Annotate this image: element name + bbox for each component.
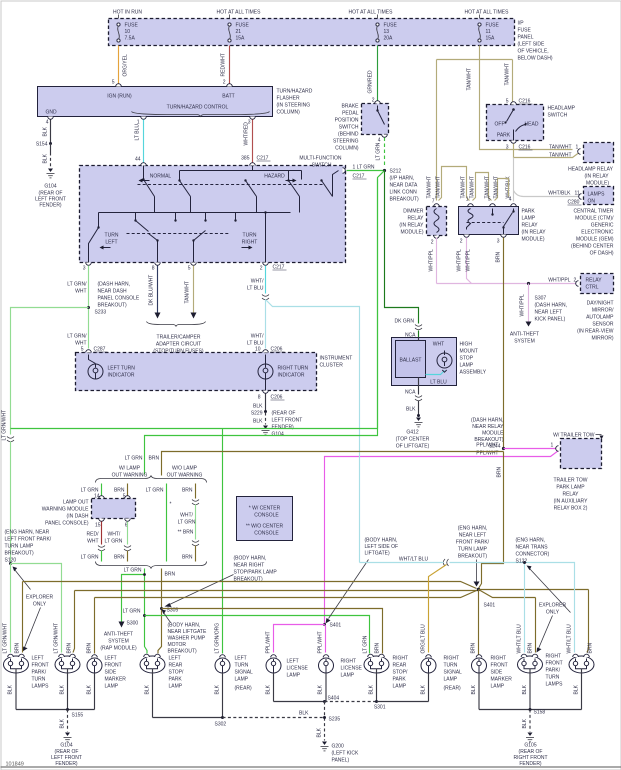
svg-text:(LEFT SIDE: (LEFT SIDE <box>518 42 546 48</box>
wire BRN park relay pin3 to S244 <box>496 238 504 478</box>
svg-text:S154: S154 <box>36 142 48 148</box>
ground G200 left kick panel <box>321 742 360 764</box>
svg-text:(REAR): (REAR) <box>235 686 253 692</box>
svg-text:WHT/PPL: WHT/PPL <box>466 249 472 271</box>
svg-text:RIGHT: RIGHT <box>491 656 507 662</box>
svg-text:(BODY HARN,: (BODY HARN, <box>234 556 267 562</box>
svg-text:(TOP CENTER: (TOP CENTER <box>396 437 430 443</box>
label W/ LAMP OUT WARNING <box>112 466 148 479</box>
svg-text:TAN/WHT: TAN/WHT <box>549 153 571 159</box>
svg-text:LT GRN: LT GRN <box>178 520 196 526</box>
svg-text:LAMP: LAMP <box>341 673 355 679</box>
svg-text:TAN/WHT: TAN/WHT <box>470 176 476 198</box>
wire LT GRN/WHT S233 branch to left side <box>2 308 89 441</box>
wire WHT/BLK branch to CTM lamps on <box>514 191 582 206</box>
svg-text:(BEHIND CENTER: (BEHIND CENTER <box>571 244 614 250</box>
svg-text:PANEL CONSOLE: PANEL CONSOLE <box>98 296 140 302</box>
svg-text:PANEL: PANEL <box>518 35 534 41</box>
svg-text:5: 5 <box>488 197 491 203</box>
svg-text:LT GRN: LT GRN <box>146 488 164 494</box>
wire WHT/LT BLU switch pin2 down <box>247 266 266 294</box>
svg-text:7: 7 <box>432 199 435 205</box>
svg-text:LEFT SIDE OF: LEFT SIDE OF <box>365 544 399 550</box>
wire BLK license ground bus <box>266 684 341 740</box>
svg-text:REAR: REAR <box>169 663 183 669</box>
svg-text:LEFT: LEFT <box>235 656 247 662</box>
svg-text:OF DASH): OF DASH) <box>590 251 614 257</box>
svg-text:HAZARD: HAZARD <box>264 174 285 180</box>
svg-text:2: 2 <box>372 98 375 104</box>
brace split lamp-out <box>96 476 207 483</box>
svg-text:LT GRN/WHT: LT GRN/WHT <box>3 623 9 654</box>
svg-text:TURN: TURN <box>105 233 119 239</box>
lamp LEFT REAR STOP/PARK (dual) <box>140 654 165 717</box>
svg-text:** BRN: ** BRN <box>178 530 194 536</box>
svg-text:BRN: BRN <box>496 252 502 263</box>
svg-text:(IN AUXILIARY: (IN AUXILIARY <box>554 499 588 505</box>
svg-text:LEFT: LEFT <box>105 656 117 662</box>
switch blade hazard <box>287 171 299 197</box>
dimmer relay (in relay module) <box>427 199 447 246</box>
svg-text:ANTI-THEFT: ANTI-THEFT <box>510 332 539 338</box>
label EXPLORER ONLY (right) <box>527 566 571 653</box>
svg-text:TAN/WHT: TAN/WHT <box>494 176 500 198</box>
svg-text:OF LIFTGATE): OF LIFTGATE) <box>396 444 430 450</box>
pin labels bottom of switch <box>83 265 287 272</box>
fuse 11 15A <box>478 23 500 43</box>
svg-text:RELAY: RELAY <box>522 223 539 229</box>
instrument cluster box <box>76 347 353 394</box>
svg-text:LAMP: LAMP <box>460 363 474 369</box>
svg-text:WASHER PUMP: WASHER PUMP <box>168 636 206 642</box>
wire BLK right ground bus <box>471 684 582 731</box>
svg-text:MOTOR: MOTOR <box>168 642 187 648</box>
svg-text:BRN: BRN <box>87 643 93 654</box>
switch internal dashed rail 1 <box>138 184 324 186</box>
wire BRN S244 down to S401 <box>479 452 504 589</box>
wire RED/WHT module pin15 <box>81 522 105 562</box>
label eng harn near left front park/turn lamp breakout (pointer) <box>456 526 490 587</box>
svg-text:BRN: BRN <box>375 643 381 654</box>
svg-text:RED/: RED/ <box>87 532 100 538</box>
svg-text:(ENG HARN,: (ENG HARN, <box>458 526 487 532</box>
svg-text:C206: C206 <box>271 347 283 353</box>
svg-text:STOP: STOP <box>460 356 474 362</box>
svg-text:KICK PANEL): KICK PANEL) <box>535 317 566 323</box>
svg-text:GENERIC: GENERIC <box>591 223 614 229</box>
wire BLK to G104 <box>43 144 51 168</box>
svg-text:FRONT: FRONT <box>491 663 508 669</box>
svg-text:PPL/WHT: PPL/WHT <box>266 631 272 653</box>
svg-text:BLK: BLK <box>253 419 263 425</box>
switch blade to pin 5 <box>192 231 205 263</box>
wire WHT/PPL S307 to anti-theft <box>510 284 539 345</box>
svg-text:BRN: BRN <box>182 488 193 494</box>
brake pedal position switch <box>362 101 389 144</box>
svg-text:ADAPTER CIRCUIT: ADAPTER CIRCUIT <box>156 342 201 348</box>
svg-text:LAMP OUT: LAMP OUT <box>63 500 88 506</box>
svg-text:G105: G105 <box>524 743 536 749</box>
connector break on left LT GRN/WHT <box>7 437 14 442</box>
svg-text:PARK/: PARK/ <box>32 670 47 676</box>
switch label HAZARD <box>264 174 296 183</box>
svg-text:44: 44 <box>135 157 141 163</box>
svg-text:(BEHIND: (BEHIND <box>338 132 359 138</box>
svg-text:BLK: BLK <box>406 407 416 413</box>
label right front park/turn lamps <box>546 654 564 688</box>
wire ORG/YEL fuse10 to flasher <box>112 46 129 86</box>
svg-text:TURN LAMP: TURN LAMP <box>458 547 488 553</box>
svg-text:3: 3 <box>83 266 86 272</box>
wire WHT/PPL to relay ctrl <box>437 278 577 284</box>
svg-text:LT GRN: LT GRN <box>105 539 123 545</box>
svg-text:RIGHT: RIGHT <box>546 654 562 660</box>
svg-text:RELAY: RELAY <box>562 492 579 498</box>
label headlamp switch <box>548 106 576 119</box>
svg-text:10: 10 <box>125 29 131 35</box>
lamp LEFT LICENSE <box>266 655 281 702</box>
svg-text:FRONT PARK/: FRONT PARK/ <box>456 540 490 546</box>
svg-text:WHT/BLK: WHT/BLK <box>548 191 571 197</box>
svg-text:CONSOLE: CONSOLE <box>254 513 279 519</box>
svg-text:SWITCH: SWITCH <box>339 125 359 131</box>
svg-text:W/O LAMP: W/O LAMP <box>172 466 198 472</box>
svg-text:DAY/NIGHT: DAY/NIGHT <box>587 301 614 307</box>
label park lamp relay <box>522 209 547 243</box>
svg-text:BELOW DASH): BELOW DASH) <box>518 56 553 62</box>
svg-text:DIMMER: DIMMER <box>403 209 424 215</box>
svg-text:385: 385 <box>241 156 250 162</box>
svg-text:S307: S307 <box>535 296 547 302</box>
label TURN RIGHT <box>242 233 258 250</box>
svg-text:BLK: BLK <box>266 684 272 694</box>
svg-text:HOT AT ALL TIMES: HOT AT ALL TIMES <box>349 10 394 16</box>
svg-text:STOP/: STOP/ <box>169 670 185 676</box>
svg-text:SIGNAL: SIGNAL <box>444 670 463 676</box>
wire WHT/PPL dimmer pin2 down <box>429 238 437 284</box>
svg-text:LEFT: LEFT <box>169 656 181 662</box>
svg-text:HEAD: HEAD <box>525 122 539 128</box>
svg-text:LEFT: LEFT <box>32 656 44 662</box>
connector break WHT/LT BLU <box>262 295 269 300</box>
label W/O LAMP OUT WARNING <box>167 466 203 479</box>
svg-text:C216: C216 <box>519 145 531 151</box>
wire LT GRN merged down <box>145 569 148 654</box>
svg-text:ONLY: ONLY <box>546 610 560 616</box>
svg-text:LAMP: LAMP <box>444 677 458 683</box>
svg-text:5: 5 <box>81 347 84 353</box>
switch internal rail top <box>180 166 302 171</box>
svg-text:REAR: REAR <box>393 663 407 669</box>
wire BLK flasher GND <box>43 120 51 144</box>
turn/hazard flasher box <box>38 84 273 120</box>
svg-text:LT GRN/WHT: LT GRN/WHT <box>2 410 8 441</box>
svg-text:NEAR TRANS: NEAR TRANS <box>516 545 549 551</box>
svg-text:LIFTGATE): LIFTGATE) <box>365 551 391 557</box>
label right license lamp <box>341 659 363 679</box>
wire LT GRN/WHT switch pin3 to cluster <box>67 266 88 349</box>
svg-text:BRAKE: BRAKE <box>342 104 360 110</box>
svg-text:(REAR OF: (REAR OF <box>272 411 296 417</box>
svg-text:W/ TRAILER TOW: W/ TRAILER TOW <box>553 433 595 439</box>
wire GRN/RED fuse13 to brake switch <box>368 46 378 104</box>
left turn indicator lamp <box>88 355 135 380</box>
svg-text:LT GRN: LT GRN <box>81 555 99 561</box>
svg-text:BRN: BRN <box>149 456 160 462</box>
node S307 <box>527 282 567 323</box>
svg-text:1: 1 <box>551 443 554 449</box>
svg-text:RIGHT TURN: RIGHT TURN <box>278 366 309 372</box>
wire WHT/LT BLU branch to right side <box>266 300 360 563</box>
svg-text:BRN: BRN <box>528 643 534 654</box>
svg-text:5: 5 <box>506 99 509 105</box>
svg-text:BLK: BLK <box>253 404 263 410</box>
svg-text:MIRROR/: MIRROR/ <box>592 308 614 314</box>
wire WHT/LT GRN module pin6 <box>105 522 132 562</box>
label right front side marker lamp <box>491 656 513 690</box>
lamp RIGHT FRONT PARK/TURN 2 (dual) <box>569 654 594 709</box>
wire TAN/WHT fuse11 branch <box>437 46 573 201</box>
svg-text:IGN (RUN): IGN (RUN) <box>107 94 132 100</box>
wire BLK right rear ground bus <box>325 684 429 710</box>
node S233 <box>87 282 140 316</box>
svg-text:HOT AT ALL TIMES: HOT AT ALL TIMES <box>217 10 262 16</box>
svg-text:5: 5 <box>112 80 115 86</box>
svg-text:BRN: BRN <box>67 643 73 654</box>
wire LT GRN/WHT break to S120 <box>10 442 12 564</box>
svg-text:LEFT TURN: LEFT TURN <box>108 366 136 372</box>
svg-text:NEAR DASH: NEAR DASH <box>98 289 128 295</box>
svg-text:FUSE: FUSE <box>125 23 139 29</box>
svg-text:S401: S401 <box>484 603 496 609</box>
svg-text:PEDAL: PEDAL <box>342 111 359 117</box>
svg-text:PARK LAMP: PARK LAMP <box>556 485 585 491</box>
wire PPL/WHT to left license lamp <box>266 625 325 654</box>
svg-text:BREAKOUT): BREAKOUT) <box>458 554 488 560</box>
svg-text:BLK: BLK <box>145 684 151 694</box>
switch blade right <box>302 171 339 197</box>
svg-text:S122: S122 <box>516 559 528 565</box>
svg-text:1 LT GRN: 1 LT GRN <box>353 165 375 171</box>
wire LT GRN col1 <box>81 484 102 500</box>
svg-text:EXPLORER: EXPLORER <box>539 603 567 609</box>
svg-text:BLK: BLK <box>317 727 323 737</box>
svg-text:15A: 15A <box>486 36 496 42</box>
label body harn left side of liftgate <box>326 538 399 624</box>
svg-text:BLK: BLK <box>215 684 221 694</box>
svg-text:S120: S120 <box>5 558 17 564</box>
svg-text:PANEL): PANEL) <box>332 758 350 764</box>
svg-text:BRN: BRN <box>588 643 594 654</box>
svg-text:WHT/: WHT/ <box>251 279 264 285</box>
svg-text:4: 4 <box>509 197 512 203</box>
svg-text:MODULE: MODULE <box>482 431 504 437</box>
label HOT IN RUN <box>113 10 142 19</box>
svg-text:DK GRN: DK GRN <box>395 319 415 325</box>
trailer tow park lamp relay <box>553 433 603 512</box>
label HOT AT ALL TIMES (fuse 11) <box>465 10 510 19</box>
label left rear stop/park lamp <box>169 656 185 690</box>
svg-text:CONSOLE: CONSOLE <box>254 531 279 537</box>
svg-text:101849: 101849 <box>6 762 24 768</box>
label right rear stop/park lamp <box>393 656 409 690</box>
svg-text:BLK: BLK <box>522 718 528 728</box>
svg-text:13: 13 <box>384 29 390 35</box>
wire BRN bus to left front park/turn lamp 1 <box>15 582 477 654</box>
svg-text:LAMP: LAMP <box>235 677 249 683</box>
svg-text:ELECTRONIC: ELECTRONIC <box>581 230 614 236</box>
lamp RIGHT FRONT PARK/TURN 1 (dual) <box>518 654 543 709</box>
svg-text:STEERING: STEERING <box>333 139 359 145</box>
svg-text:G412: G412 <box>406 430 418 436</box>
label left front park/turn lamps <box>32 656 50 690</box>
label left turn signal lamp (rear) <box>235 656 254 692</box>
ground G412 <box>396 414 430 450</box>
svg-text:S235: S235 <box>329 717 341 723</box>
labels LT GRN BRN above split <box>125 456 160 462</box>
svg-text:MARKER: MARKER <box>491 677 513 683</box>
switch wire to pin 2 <box>264 211 266 262</box>
svg-text:LT GRN: LT GRN <box>363 635 369 653</box>
svg-text:PARK: PARK <box>522 209 536 215</box>
wire BRN merged down <box>158 569 175 654</box>
node S401 magenta <box>323 623 341 629</box>
svg-text:(DASH HARN,: (DASH HARN, <box>535 303 568 309</box>
node S212 <box>383 169 419 203</box>
wire TAN/WHT jumper park relay pin5 to pin4 <box>495 179 509 201</box>
svg-text:SIDE: SIDE <box>105 670 117 676</box>
svg-text:BRN: BRN <box>471 643 477 654</box>
svg-text:S301: S301 <box>374 705 386 711</box>
svg-text:PARK: PARK <box>169 677 183 683</box>
fuse 10 7.5A <box>117 23 139 43</box>
svg-text:LICENSE: LICENSE <box>287 666 309 672</box>
svg-text:TAN/WHT: TAN/WHT <box>427 176 433 198</box>
labels TAN/WHT pairs <box>427 176 500 198</box>
right turn indicator lamp <box>258 355 309 391</box>
lamp LEFT TURN SIGNAL (REAR) <box>215 655 230 718</box>
svg-text:S212: S212 <box>390 169 402 175</box>
svg-text:OF VEHICLE,: OF VEHICLE, <box>518 49 549 55</box>
svg-text:LT GRN: LT GRN <box>125 456 143 462</box>
svg-text:AUTOLAMP: AUTOLAMP <box>586 315 614 321</box>
label I/P FUSE PANEL <box>518 21 553 62</box>
svg-text:LAMP: LAMP <box>287 673 301 679</box>
svg-text:7.5A: 7.5A <box>125 36 136 42</box>
svg-text:LAMP: LAMP <box>393 684 407 690</box>
svg-text:LAMP: LAMP <box>522 216 536 222</box>
svg-text:WHT/: WHT/ <box>251 334 264 340</box>
svg-text:BRN: BRN <box>497 467 503 478</box>
connector break NCA top of ballast <box>405 325 422 341</box>
label trailer/camper adapter circuit <box>147 322 206 355</box>
lamp RIGHT TURN SIGNAL (REAR) <box>421 655 436 702</box>
switch internal dashed rail 2 <box>127 233 231 235</box>
wire ORG/LT BLU to right rear turn lamp <box>421 565 447 654</box>
wire RED/WHT fuse21 to flasher <box>221 46 230 86</box>
wire DK BLU/WHT switch pin8 trailer feed <box>149 266 161 319</box>
svg-text:S302: S302 <box>215 722 227 728</box>
svg-text:WHT: WHT <box>87 539 98 545</box>
svg-text:LEFT FRONT PARK/: LEFT FRONT PARK/ <box>5 537 52 543</box>
svg-text:BLK: BLK <box>60 684 66 694</box>
svg-text:TRAILER/CAMPER: TRAILER/CAMPER <box>157 335 201 341</box>
svg-text:CENTRAL TIMER: CENTRAL TIMER <box>573 209 613 215</box>
svg-text:S229: S229 <box>251 411 263 417</box>
svg-text:MODULE): MODULE) <box>522 237 545 243</box>
svg-text:OFF: OFF <box>495 122 505 128</box>
svg-text:LT BLU: LT BLU <box>430 380 447 386</box>
svg-text:GND: GND <box>46 110 58 116</box>
svg-text:WHT/PPL: WHT/PPL <box>548 278 570 284</box>
svg-text:S233: S233 <box>95 310 107 316</box>
svg-text:RIGHT: RIGHT <box>393 656 409 662</box>
lamp RIGHT REAR STOP/PARK (dual) <box>363 635 390 701</box>
svg-text:GRN/RED: GRN/RED <box>368 70 374 93</box>
svg-text:MULTI-FUNCTION: MULTI-FUNCTION <box>299 156 342 162</box>
wire LT GRN/ORG branch to left rear turn lamp <box>215 429 223 654</box>
svg-text:LT GRN: LT GRN <box>123 609 141 615</box>
svg-text:TURN: TURN <box>546 675 560 681</box>
svg-text:TAN/WHT: TAN/WHT <box>185 281 191 303</box>
label day/night mirror autolamp sensor <box>577 301 614 342</box>
svg-text:STOP/: STOP/ <box>393 670 409 676</box>
node S401 junction X <box>477 588 589 657</box>
svg-text:BREAKOUT): BREAKOUT) <box>5 551 35 557</box>
svg-text:BLK: BLK <box>299 711 309 717</box>
svg-text:RIGHT: RIGHT <box>341 659 357 665</box>
svg-text:LAMPS: LAMPS <box>588 192 606 198</box>
svg-text:HIGH: HIGH <box>460 342 473 348</box>
svg-text:OUT WARNING: OUT WARNING <box>112 473 148 479</box>
wire BRN bus to left front park/turn lamp 2 <box>67 591 479 654</box>
svg-text:WHT/RED: WHT/RED <box>244 122 250 146</box>
svg-text:WHT/PPL: WHT/PPL <box>520 294 526 316</box>
wire DK GRN S212 to ballast <box>385 172 419 325</box>
svg-text:LT GRN: LT GRN <box>376 142 382 160</box>
svg-text:STOP/PARK LAMP: STOP/PARK LAMP <box>234 570 278 576</box>
svg-text:BLK: BLK <box>522 684 528 694</box>
relay ctrl box (day/night mirror) <box>576 274 614 294</box>
svg-text:LICENSE: LICENSE <box>341 666 363 672</box>
label dimmer relay <box>399 209 424 236</box>
lamp RIGHT FRONT SIDE MARKER <box>472 655 487 710</box>
svg-text:ORG/LT BLU: ORG/LT BLU <box>421 624 427 654</box>
svg-text:LT GRN/WHT: LT GRN/WHT <box>54 623 60 654</box>
svg-text:WHT/PPL: WHT/PPL <box>457 249 463 271</box>
svg-text:NCA: NCA <box>405 390 416 396</box>
svg-text:LT GRN/ORG: LT GRN/ORG <box>215 623 221 654</box>
wire PPL/WHT to right license lamp <box>318 625 326 654</box>
label left front side marker lamp <box>105 656 127 690</box>
headlamp switch S2 <box>487 99 544 151</box>
ground G104 (cluster) <box>262 411 303 438</box>
svg-text:POSITION: POSITION <box>335 118 359 124</box>
svg-text:RELAY: RELAY <box>407 216 424 222</box>
label body harn near liftgate washer pump <box>162 610 207 655</box>
svg-text:C217: C217 <box>353 174 365 180</box>
svg-text:4: 4 <box>378 138 381 144</box>
label HOT AT ALL TIMES (fuse 13) <box>349 10 394 19</box>
svg-text:TAN/WHT: TAN/WHT <box>549 145 571 151</box>
wire BRN to right front park/turn lamp1 <box>528 598 536 654</box>
I/P fuse panel box <box>109 19 515 46</box>
lamp LEFT FRONT PARK/TURN 1 (dual) <box>4 654 29 709</box>
svg-text:ORG/YEL: ORG/YEL <box>123 54 129 76</box>
svg-text:HOT AT ALL TIMES: HOT AT ALL TIMES <box>465 10 510 16</box>
wire WHT/BLK headlamp switch to park lamp relay pin4 <box>506 158 514 202</box>
svg-text:INDICATOR: INDICATOR <box>108 373 135 379</box>
